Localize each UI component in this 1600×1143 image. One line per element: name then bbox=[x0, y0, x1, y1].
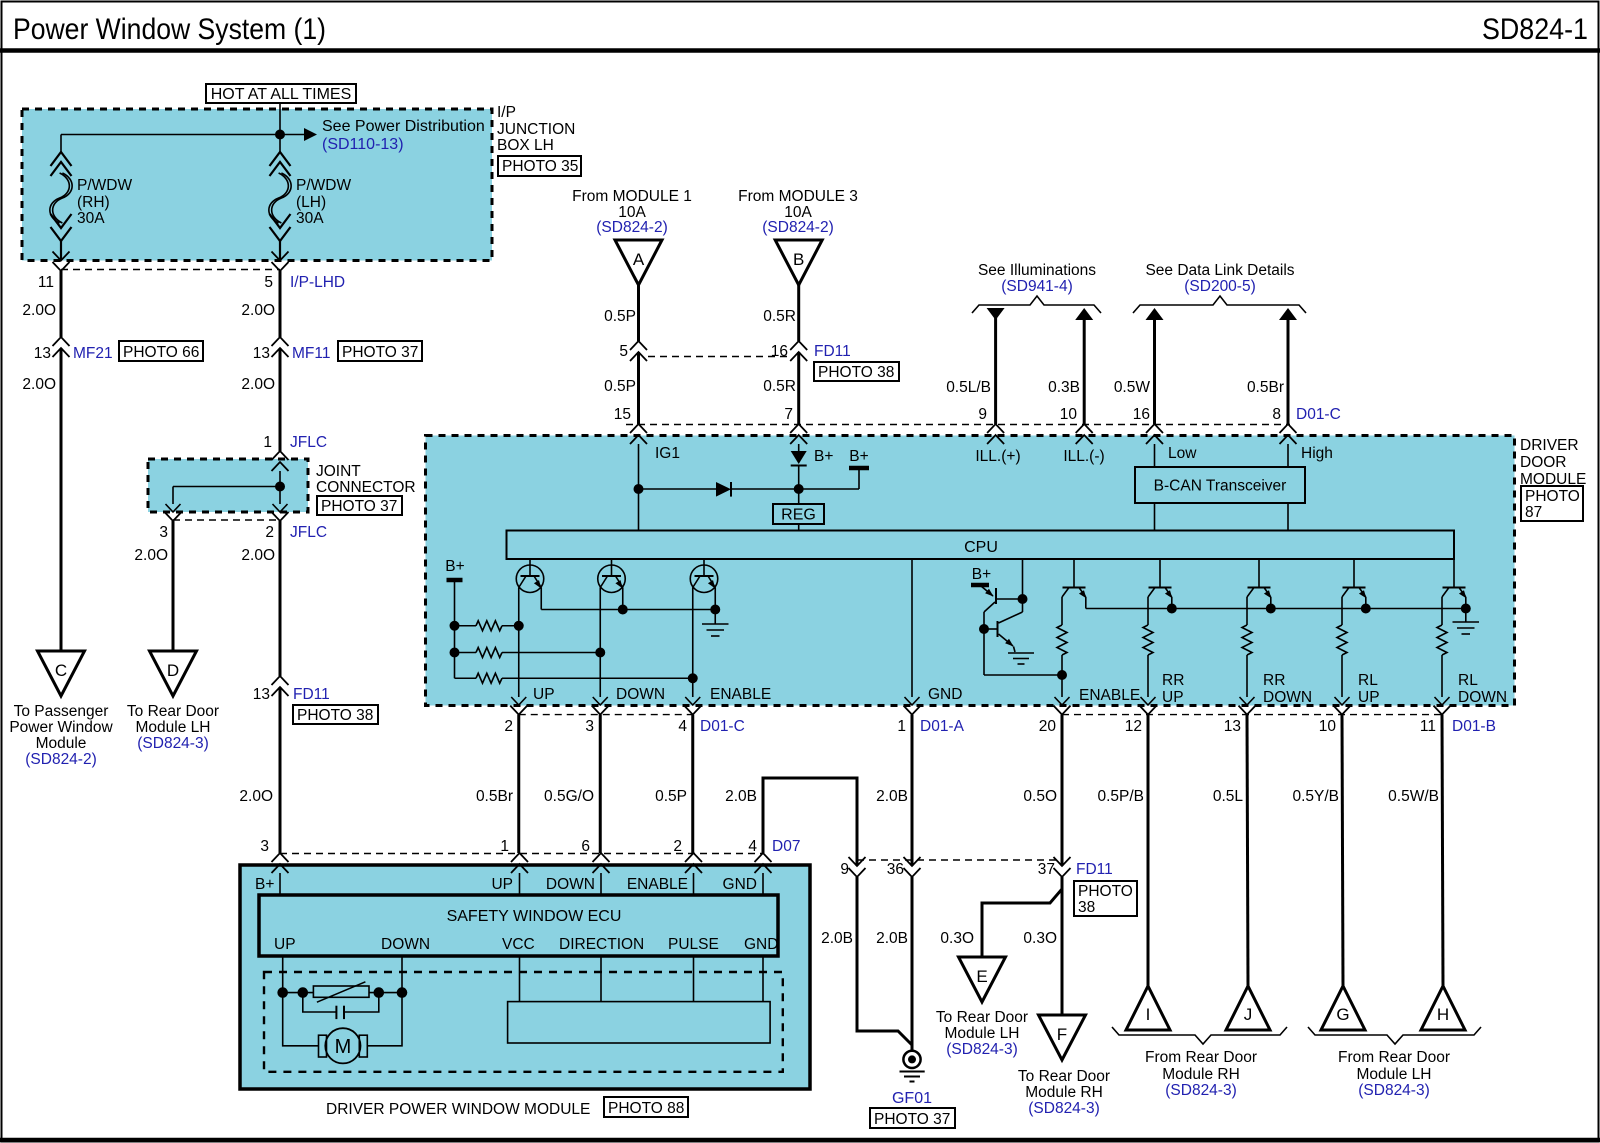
svg-text:FD11: FD11 bbox=[293, 686, 330, 703]
resistor RR DOWN bbox=[1246, 597, 1248, 625]
svg-text:9: 9 bbox=[978, 406, 987, 423]
ground symbol darlington bbox=[1008, 652, 1034, 654]
svg-text:ENABLE: ENABLE bbox=[710, 686, 771, 703]
svg-text:From MODULE 3: From MODULE 3 bbox=[738, 188, 858, 205]
ground GF01 bbox=[903, 1051, 920, 1068]
wire MF21 to triangle C bbox=[60, 348, 63, 651]
svg-text:PHOTO 37: PHOTO 37 bbox=[342, 344, 418, 361]
svg-text:0.3B: 0.3B bbox=[1048, 379, 1080, 396]
svg-text:See Illuminations: See Illuminations bbox=[978, 262, 1096, 279]
resistor RR UP bbox=[1147, 597, 1149, 625]
pin 9 chevron bbox=[849, 857, 866, 866]
svg-text:0.5Br: 0.5Br bbox=[1247, 379, 1284, 396]
svg-text:0.5G/O: 0.5G/O bbox=[544, 788, 594, 805]
svg-text:REG: REG bbox=[781, 507, 816, 524]
connector FD11 pin 16 bbox=[790, 341, 807, 350]
svg-text:0.5Y/B: 0.5Y/B bbox=[1292, 788, 1339, 805]
pin 3 D01-C bbox=[592, 706, 609, 715]
svg-text:(SD110-13): (SD110-13) bbox=[322, 136, 404, 153]
svg-text:0.5L/B: 0.5L/B bbox=[946, 379, 991, 396]
arrow see power distribution bbox=[280, 134, 304, 136]
svg-text:D01-B: D01-B bbox=[1452, 718, 1496, 735]
connector MF11 pin 13 bbox=[272, 337, 289, 346]
svg-text:FD11: FD11 bbox=[1076, 861, 1113, 878]
svg-text:J: J bbox=[1244, 1005, 1253, 1024]
svg-text:PHOTO 38: PHOTO 38 bbox=[818, 364, 894, 381]
svg-text:Module RH: Module RH bbox=[1162, 1066, 1240, 1083]
svg-text:P/WDW: P/WDW bbox=[77, 177, 132, 194]
transistor UP driver bbox=[529, 559, 531, 576]
joint connector box bbox=[148, 459, 308, 512]
svg-text:From Rear Door: From Rear Door bbox=[1145, 1049, 1257, 1066]
emitter rail and ground left bbox=[540, 588, 542, 610]
svg-text:3: 3 bbox=[260, 838, 269, 855]
svg-text:0.5R: 0.5R bbox=[763, 378, 796, 395]
wire RR DOWN from J bbox=[1247, 715, 1248, 986]
wire FD11 to DDM pin 7 bbox=[797, 352, 800, 424]
label PHOTO 38 FD11 pin16 bbox=[814, 362, 899, 381]
svg-text:ENABLE: ENABLE bbox=[1079, 687, 1140, 704]
wire CAN low arrow bbox=[1146, 308, 1164, 320]
pin 1 D07 bbox=[511, 853, 528, 862]
svg-text:(SD824-3): (SD824-3) bbox=[137, 735, 209, 752]
svg-text:Power Window System (1): Power Window System (1) bbox=[13, 13, 326, 46]
label PHOTO 35 bbox=[498, 156, 581, 176]
wire hot label to junction box bbox=[279, 103, 281, 109]
inner dashed box DPWM bbox=[264, 972, 783, 1072]
pin 11 I/P-LHD bbox=[53, 252, 70, 261]
wire CAN high to transceiver bbox=[1287, 444, 1289, 467]
svg-text:6: 6 bbox=[581, 838, 590, 855]
brace from rear door module LH bbox=[1308, 1027, 1481, 1044]
svg-text:D01-C: D01-C bbox=[1296, 406, 1341, 423]
svg-text:P/WDW: P/WDW bbox=[296, 177, 351, 194]
transistor RR UP driver bbox=[1159, 559, 1161, 588]
CPU box bbox=[507, 531, 1455, 560]
svg-text:High: High bbox=[1301, 445, 1333, 462]
wire fuse LH to connector MF11 bbox=[279, 271, 282, 337]
diode internal horizontal bbox=[639, 488, 717, 490]
wire ILL minus arrow bbox=[1075, 308, 1093, 320]
emitter rail right bbox=[1085, 597, 1087, 609]
wire GND from DDM pin1 bbox=[911, 715, 914, 866]
svg-text:DOOR: DOOR bbox=[1520, 454, 1567, 471]
wire VCC block bbox=[519, 956, 521, 1002]
label PHOTO 66 bbox=[119, 341, 203, 361]
resistor ENABLE bbox=[1061, 597, 1063, 625]
wire IG1 bbox=[638, 444, 640, 531]
svg-text:(LH): (LH) bbox=[296, 194, 326, 211]
svg-text:PULSE: PULSE bbox=[668, 936, 719, 953]
svg-text:E: E bbox=[976, 967, 987, 986]
svg-text:(SD824-2): (SD824-2) bbox=[762, 219, 834, 236]
connector rail D01-B bbox=[1062, 714, 1442, 716]
svg-text:30A: 30A bbox=[296, 210, 324, 227]
svg-text:PHOTO 35: PHOTO 35 bbox=[502, 158, 578, 175]
pin 4 D01-C bbox=[684, 706, 701, 715]
svg-text:2.0O: 2.0O bbox=[241, 376, 275, 393]
svg-text:1: 1 bbox=[500, 838, 509, 855]
svg-text:RL: RL bbox=[1358, 672, 1378, 689]
wire UP output bbox=[518, 588, 520, 698]
svg-text:PHOTO 37: PHOTO 37 bbox=[321, 498, 397, 515]
svg-text:13: 13 bbox=[253, 686, 270, 703]
connector triangle G bbox=[1321, 986, 1365, 1030]
ground symbol left trio bbox=[714, 610, 716, 625]
svg-text:DRIVER: DRIVER bbox=[1520, 437, 1579, 454]
transistor RL UP driver bbox=[1353, 559, 1355, 588]
svg-text:36: 36 bbox=[887, 861, 904, 878]
pin 36 chevron bbox=[904, 857, 921, 866]
svg-text:B+: B+ bbox=[255, 876, 274, 893]
connector triangle D to rear door module LH bbox=[150, 651, 197, 696]
svg-text:D01-C: D01-C bbox=[700, 718, 745, 735]
svg-text:16: 16 bbox=[771, 343, 788, 360]
label PHOTO 37 bbox=[338, 341, 422, 361]
wire DDM pin20 to FD11 pin37 bbox=[1061, 715, 1064, 866]
wire CAN high arrow bbox=[1279, 308, 1297, 320]
svg-text:2: 2 bbox=[265, 524, 274, 541]
connector rail JFLC bbox=[173, 519, 280, 521]
pin 37 chevron FD11 bbox=[1054, 857, 1071, 866]
svg-text:0.5R: 0.5R bbox=[763, 308, 796, 325]
connector triangle C to passenger power window module bbox=[38, 651, 85, 696]
wire FD11 to DDM pin 15 bbox=[637, 352, 640, 424]
regulator REG bbox=[773, 504, 824, 524]
svg-text:0.5W/B: 0.5W/B bbox=[1388, 788, 1439, 805]
svg-text:16: 16 bbox=[1133, 406, 1150, 423]
svg-text:5: 5 bbox=[619, 343, 628, 360]
svg-text:C: C bbox=[55, 661, 67, 680]
svg-text:GND: GND bbox=[928, 686, 962, 703]
svg-text:2.0O: 2.0O bbox=[22, 376, 56, 393]
pin 13 D01-B bbox=[1239, 706, 1256, 715]
svg-text:MF21: MF21 bbox=[73, 345, 113, 362]
svg-text:13: 13 bbox=[34, 345, 51, 362]
svg-text:SAFETY WINDOW ECU: SAFETY WINDOW ECU bbox=[447, 908, 622, 925]
svg-text:B+: B+ bbox=[972, 566, 991, 583]
svg-text:2.0B: 2.0B bbox=[876, 930, 908, 947]
B+ internal supply node bbox=[799, 488, 859, 490]
svg-text:BOX LH: BOX LH bbox=[497, 137, 554, 154]
svg-text:DOWN: DOWN bbox=[1458, 689, 1507, 706]
wire transceiver to CPU bbox=[1154, 503, 1156, 531]
pin 8 DDM bbox=[1280, 424, 1297, 433]
driver power window module box bbox=[240, 865, 810, 1089]
svg-text:0.3O: 0.3O bbox=[940, 930, 974, 947]
wire darlington to enable node bbox=[984, 674, 1062, 676]
motor node junctions bbox=[277, 987, 288, 998]
connector FD11 pin 13 bbox=[272, 676, 289, 685]
wire DOWN output bbox=[599, 588, 601, 698]
svg-text:3: 3 bbox=[159, 524, 168, 541]
svg-text:(SD824-3): (SD824-3) bbox=[1165, 1082, 1237, 1099]
connector MF21 pin 13 bbox=[53, 337, 70, 346]
control block box bbox=[508, 1002, 770, 1043]
wire ECU DOWN to motor node bbox=[401, 956, 403, 993]
svg-text:JFLC: JFLC bbox=[290, 434, 327, 451]
fuse P/WDW (RH) 30A bbox=[60, 135, 62, 153]
svg-text:2.0O: 2.0O bbox=[241, 547, 275, 564]
svg-text:FD11: FD11 bbox=[814, 343, 851, 360]
svg-text:To Rear Door: To Rear Door bbox=[936, 1009, 1028, 1026]
svg-text:0.3O: 0.3O bbox=[1023, 930, 1057, 947]
svg-text:GND: GND bbox=[723, 876, 757, 893]
label PHOTO 37 joint connector bbox=[317, 496, 402, 515]
svg-text:PHOTO: PHOTO bbox=[1078, 883, 1133, 900]
wire MF11 to joint connector bbox=[279, 348, 282, 451]
wire 2.0B to ground junction bbox=[857, 877, 912, 1045]
svg-text:2: 2 bbox=[504, 718, 513, 735]
label HOT AT ALL TIMES bbox=[206, 84, 356, 103]
svg-text:RR: RR bbox=[1263, 672, 1285, 689]
resistor pullup UP bbox=[455, 625, 477, 627]
label PHOTO 38 FD11 bbox=[293, 705, 378, 724]
wire JFLC to triangle D bbox=[172, 521, 175, 651]
svg-text:DOWN: DOWN bbox=[546, 876, 595, 893]
svg-text:UP: UP bbox=[274, 936, 296, 953]
svg-text:Module: Module bbox=[36, 735, 87, 752]
wire GND to GF01 bbox=[911, 877, 914, 1051]
svg-text:Power Window: Power Window bbox=[9, 719, 113, 736]
pin 1 D01-A bbox=[904, 706, 921, 715]
svg-text:2.0O: 2.0O bbox=[239, 788, 273, 805]
svg-text:D: D bbox=[167, 661, 179, 680]
svg-text:To Rear Door: To Rear Door bbox=[1018, 1068, 1110, 1085]
wire RL UP from G bbox=[1342, 715, 1343, 986]
wire CAN low to transceiver bbox=[1154, 444, 1156, 467]
wire RR UP from I bbox=[1147, 715, 1150, 986]
svg-text:4: 4 bbox=[748, 838, 757, 855]
svg-text:B+: B+ bbox=[849, 448, 868, 465]
pin 7 DDM bbox=[790, 424, 807, 433]
svg-text:PHOTO 38: PHOTO 38 bbox=[297, 707, 373, 724]
svg-text:13: 13 bbox=[1224, 718, 1241, 735]
svg-text:Module LH: Module LH bbox=[136, 719, 211, 736]
svg-text:2.0O: 2.0O bbox=[22, 302, 56, 319]
svg-text:0.5Br: 0.5Br bbox=[476, 788, 513, 805]
wire DOWN to safety ECU bbox=[599, 715, 602, 853]
pin 10 D01-B bbox=[1334, 706, 1351, 715]
transistor darlington upper bbox=[981, 586, 993, 596]
wire ILL plus arrow bbox=[987, 308, 1005, 320]
svg-text:0.5P: 0.5P bbox=[655, 788, 687, 805]
transistor DOWN driver bbox=[611, 559, 613, 576]
svg-text:PHOTO: PHOTO bbox=[1525, 488, 1580, 505]
connector rail D01-C bottom bbox=[519, 714, 693, 716]
svg-text:2.0B: 2.0B bbox=[725, 788, 757, 805]
resistor pullup DOWN bbox=[455, 652, 477, 654]
pin 15 DDM bbox=[630, 424, 647, 433]
svg-text:CONNECTOR: CONNECTOR bbox=[316, 479, 416, 496]
svg-text:From MODULE 1: From MODULE 1 bbox=[572, 188, 692, 205]
svg-text:37: 37 bbox=[1038, 861, 1055, 878]
svg-text:SD824-1: SD824-1 bbox=[1482, 13, 1588, 46]
svg-text:HOT AT ALL TIMES: HOT AT ALL TIMES bbox=[211, 86, 352, 103]
svg-text:B: B bbox=[793, 250, 804, 269]
wire A to FD11 pin 5 bbox=[637, 285, 640, 341]
svg-text:ENABLE: ENABLE bbox=[627, 876, 688, 893]
transistor RR DOWN driver bbox=[1258, 559, 1260, 588]
svg-text:GND: GND bbox=[744, 936, 778, 953]
wire GND output bbox=[911, 559, 913, 697]
wire ENABLE output bbox=[692, 588, 694, 698]
svg-text:I/P-LHD: I/P-LHD bbox=[290, 274, 345, 291]
svg-text:30A: 30A bbox=[77, 210, 105, 227]
resistor pullup ENABLE bbox=[455, 677, 477, 679]
svg-text:4: 4 bbox=[678, 718, 687, 735]
svg-text:0.5O: 0.5O bbox=[1023, 788, 1057, 805]
wire RL DOWN from H bbox=[1442, 715, 1443, 986]
svg-text:JFLC: JFLC bbox=[290, 524, 327, 541]
svg-text:10: 10 bbox=[1060, 406, 1078, 423]
svg-text:87: 87 bbox=[1525, 504, 1542, 521]
transistor darlington lower bbox=[997, 621, 999, 637]
svg-text:(SD941-4): (SD941-4) bbox=[1001, 278, 1073, 295]
connector triangle E to rear door module LH bbox=[959, 957, 1006, 1002]
svg-text:(SD824-3): (SD824-3) bbox=[946, 1041, 1018, 1058]
svg-text:38: 38 bbox=[1078, 899, 1095, 916]
svg-text:UP: UP bbox=[1162, 689, 1184, 706]
pin 3 JFLC bbox=[165, 512, 182, 521]
svg-text:D07: D07 bbox=[772, 838, 800, 855]
label PHOTO 88 bbox=[604, 1097, 688, 1117]
transistor ENABLE driver bbox=[703, 559, 705, 576]
svg-text:UP: UP bbox=[533, 686, 555, 703]
connector rail GF rail bbox=[857, 859, 1062, 861]
svg-text:13: 13 bbox=[253, 345, 270, 362]
svg-text:Module LH: Module LH bbox=[945, 1025, 1020, 1042]
svg-text:11: 11 bbox=[1420, 718, 1436, 735]
svg-text:M: M bbox=[335, 1036, 352, 1058]
wires pins to safety ECU bbox=[279, 873, 281, 895]
svg-text:10: 10 bbox=[1319, 718, 1337, 735]
svg-text:MF11: MF11 bbox=[292, 345, 330, 362]
svg-text:7: 7 bbox=[784, 406, 793, 423]
pin 16 DDM bbox=[1146, 424, 1163, 433]
svg-text:9: 9 bbox=[840, 861, 849, 878]
svg-text:(SD200-5): (SD200-5) bbox=[1184, 278, 1256, 295]
resistor RL UP bbox=[1341, 597, 1343, 625]
svg-text:2.0O: 2.0O bbox=[241, 302, 275, 319]
svg-text:GF01: GF01 bbox=[892, 1090, 932, 1107]
svg-text:DOWN: DOWN bbox=[616, 686, 665, 703]
svg-text:3: 3 bbox=[585, 718, 594, 735]
pin 5 I/P-LHD bbox=[272, 252, 289, 261]
I/P junction box LH bbox=[22, 109, 492, 261]
svg-text:PHOTO 37: PHOTO 37 bbox=[874, 1111, 950, 1128]
wire enable branch to E bbox=[982, 877, 1062, 957]
connector triangle H bbox=[1421, 986, 1465, 1030]
ground symbol right rail bbox=[1465, 609, 1467, 623]
svg-text:H: H bbox=[1437, 1005, 1449, 1024]
connector rail D07 bbox=[280, 853, 763, 855]
wire fuse RH to connector MF21 bbox=[60, 271, 63, 337]
title divider bbox=[0, 48, 1600, 53]
connector triangle F to rear door module RH bbox=[1039, 1015, 1086, 1060]
pin 2 D01-C bbox=[510, 706, 527, 715]
svg-text:UP: UP bbox=[1358, 689, 1380, 706]
pin 4 D07 bbox=[755, 853, 772, 862]
connector triangle I bbox=[1126, 986, 1170, 1030]
joint connector internal wiring bbox=[279, 471, 281, 504]
capacitor bbox=[303, 993, 337, 1012]
wire ECU UP to motor node bbox=[282, 956, 284, 993]
svg-text:DRIVER POWER WINDOW MODULE: DRIVER POWER WINDOW MODULE bbox=[326, 1101, 590, 1118]
wire B to FD11 pin 16 bbox=[797, 285, 800, 341]
svg-text:RL: RL bbox=[1458, 672, 1478, 689]
svg-text:Module RH: Module RH bbox=[1025, 1084, 1103, 1101]
wire JFLC to connector FD11 bbox=[279, 521, 282, 676]
svg-text:B+: B+ bbox=[445, 558, 464, 575]
svg-text:B-CAN Transceiver: B-CAN Transceiver bbox=[1154, 478, 1287, 495]
pin 9 DDM bbox=[987, 424, 1004, 433]
wire ENABLE to safety ECU bbox=[691, 715, 694, 853]
transistor RL DOWN driver bbox=[1453, 559, 1455, 588]
svg-text:To Rear Door: To Rear Door bbox=[127, 703, 219, 720]
label PHOTO 37 GF01 bbox=[870, 1108, 955, 1128]
wire FD11 to driver power window module pin 3 bbox=[279, 687, 282, 853]
pin 12 D01-B bbox=[1140, 706, 1157, 715]
svg-text:See Data Link Details: See Data Link Details bbox=[1145, 262, 1294, 279]
pin 2 D07 bbox=[685, 853, 702, 862]
brace see illuminations bbox=[972, 296, 1101, 313]
wire enable to F bbox=[1061, 889, 1064, 1015]
svg-text:To Passenger: To Passenger bbox=[14, 703, 109, 720]
thermistor bbox=[313, 986, 369, 997]
connector rail I/P-LHD bbox=[61, 269, 280, 271]
pin 3 D07 bbox=[272, 853, 289, 862]
label PHOTO 87 bbox=[1521, 486, 1583, 521]
pin 2 JFLC bbox=[272, 512, 289, 521]
svg-text:(RH): (RH) bbox=[77, 194, 110, 211]
svg-text:DIRECTION: DIRECTION bbox=[559, 936, 644, 953]
motor M bbox=[325, 1028, 360, 1063]
resistor RL DOWN bbox=[1441, 597, 1443, 625]
svg-text:(SD824-3): (SD824-3) bbox=[1358, 1082, 1430, 1099]
svg-text:12: 12 bbox=[1125, 718, 1142, 735]
connector dashed link FD11 bbox=[648, 356, 788, 358]
svg-text:UP: UP bbox=[491, 876, 513, 893]
svg-text:PHOTO 66: PHOTO 66 bbox=[123, 344, 199, 361]
node power feed junction bbox=[279, 109, 281, 135]
svg-text:I/P: I/P bbox=[497, 104, 516, 121]
connector triangle J bbox=[1226, 986, 1270, 1030]
brace from rear door module RH bbox=[1112, 1027, 1287, 1044]
svg-text:0.5P: 0.5P bbox=[604, 308, 636, 325]
svg-text:ILL.(-): ILL.(-) bbox=[1063, 448, 1104, 465]
pin 20 D01-B bbox=[1054, 706, 1071, 715]
svg-text:8: 8 bbox=[1272, 406, 1281, 423]
brace see data link details bbox=[1133, 296, 1306, 313]
svg-text:0.5L: 0.5L bbox=[1213, 788, 1244, 805]
svg-text:2: 2 bbox=[673, 838, 682, 855]
diode B+ input bbox=[798, 444, 800, 451]
svg-text:PHOTO 88: PHOTO 88 bbox=[608, 1100, 684, 1117]
svg-text:0.5P: 0.5P bbox=[604, 378, 636, 395]
svg-text:I: I bbox=[1146, 1005, 1151, 1024]
svg-text:IG1: IG1 bbox=[655, 445, 680, 462]
svg-text:1: 1 bbox=[897, 718, 906, 735]
svg-text:F: F bbox=[1057, 1025, 1067, 1044]
svg-text:A: A bbox=[633, 250, 645, 269]
label PHOTO 38 bottom bbox=[1074, 881, 1137, 916]
svg-text:JUNCTION: JUNCTION bbox=[497, 121, 575, 138]
wire safety ECU GND riser bbox=[763, 778, 857, 866]
svg-text:DOWN: DOWN bbox=[1263, 689, 1312, 706]
svg-text:(SD824-2): (SD824-2) bbox=[596, 219, 668, 236]
B-CAN transceiver bbox=[1135, 467, 1305, 503]
